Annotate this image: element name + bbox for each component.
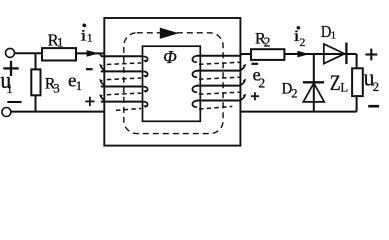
svg-text:1: 1	[331, 30, 337, 42]
svg-text:i: i	[294, 28, 300, 46]
svg-text:2: 2	[264, 35, 271, 50]
svg-text:2: 2	[258, 77, 265, 92]
svg-text:Z: Z	[330, 71, 341, 95]
svg-text:D: D	[321, 23, 331, 41]
svg-text:2: 2	[373, 79, 380, 94]
svg-text:D: D	[282, 80, 293, 98]
svg-text:3: 3	[53, 81, 60, 96]
svg-text:2: 2	[299, 35, 305, 49]
svg-text:i: i	[81, 27, 87, 45]
svg-text:1: 1	[87, 31, 93, 45]
svg-text:L: L	[340, 81, 348, 95]
svg-text:1: 1	[6, 81, 13, 96]
svg-text:1: 1	[76, 78, 83, 93]
svg-text:1: 1	[57, 35, 64, 50]
svg-text:Φ: Φ	[163, 47, 177, 67]
